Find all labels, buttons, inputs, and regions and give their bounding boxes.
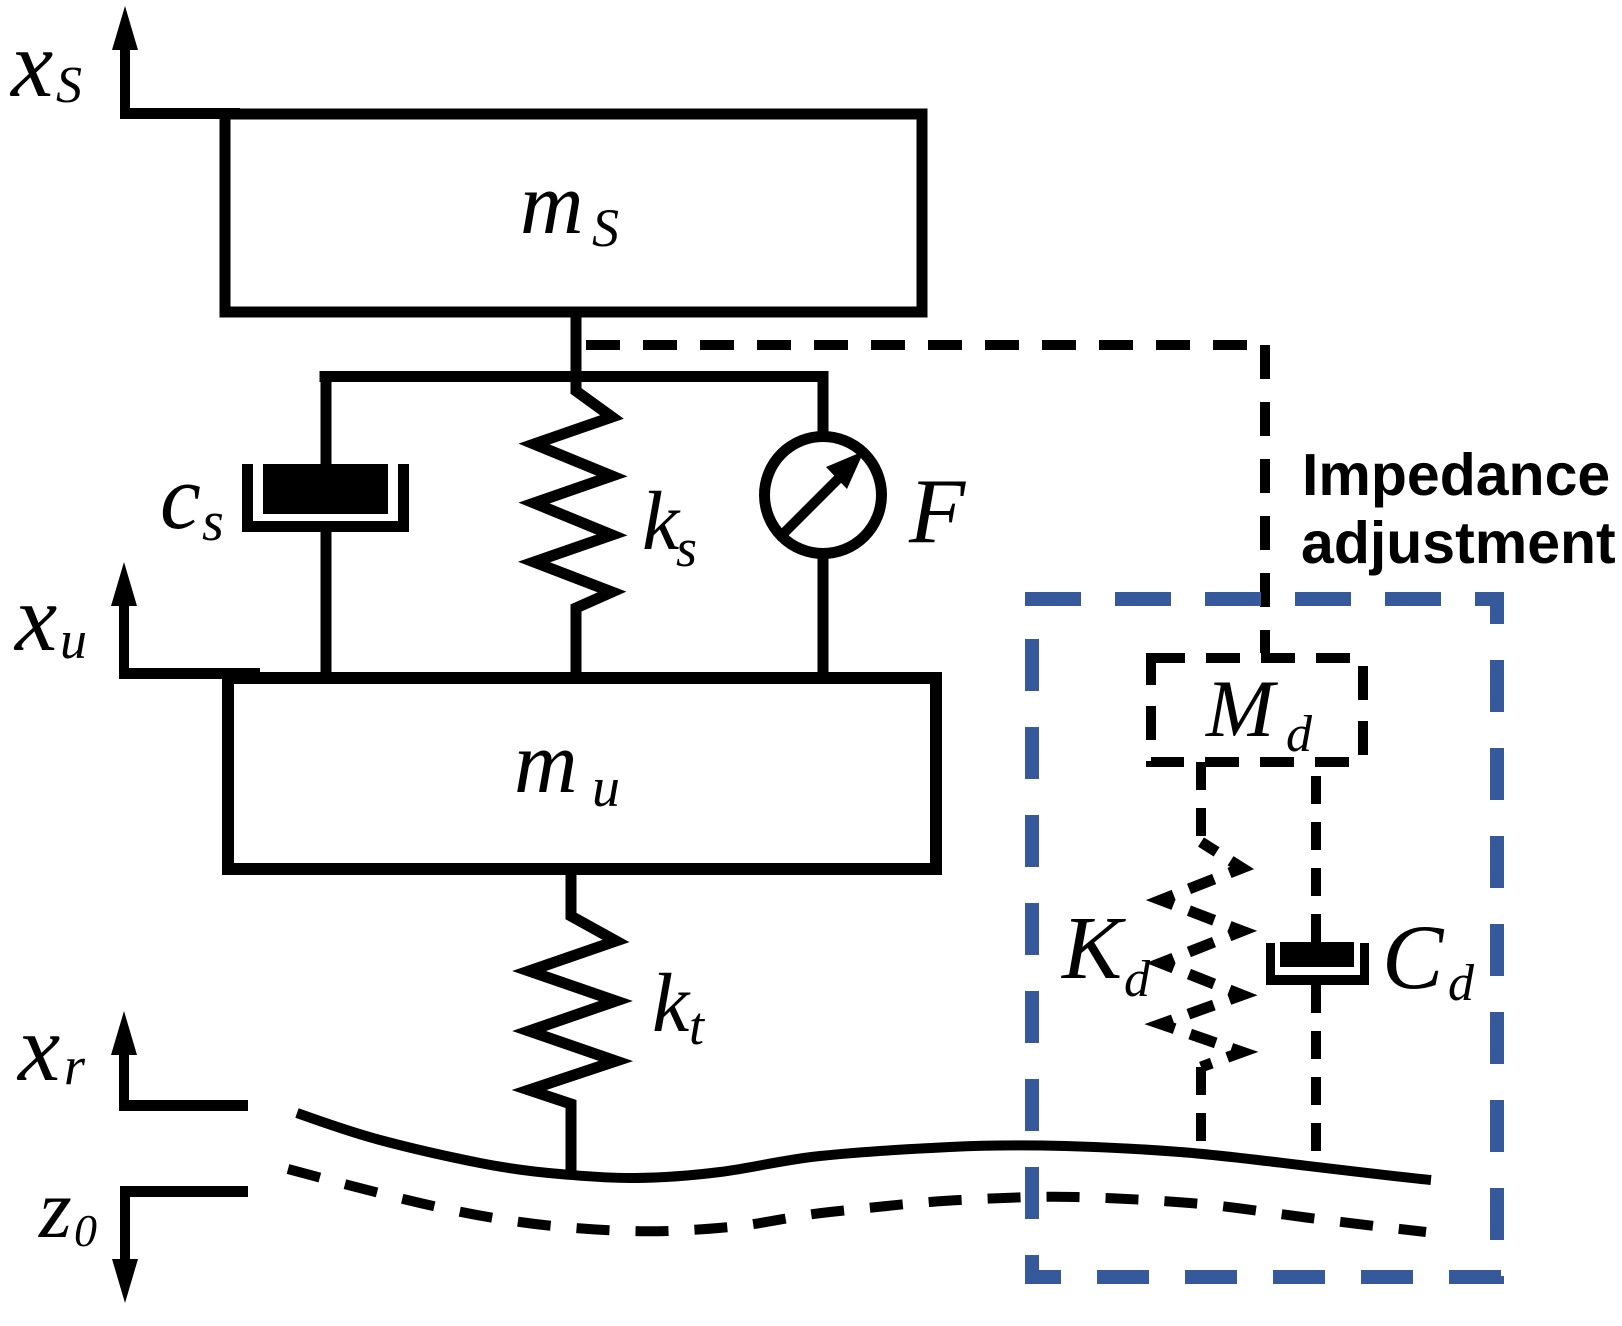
wire impedance adjustment dashed link (horizontal)	[586, 340, 1265, 350]
blue impedance adjustment box	[1025, 592, 1504, 1284]
svg-text:C: C	[1382, 906, 1445, 1008]
damper C_d dashed	[1266, 762, 1475, 1160]
svg-text:d: d	[1448, 955, 1475, 1012]
node z_0 axis arrow	[112, 1186, 248, 1303]
svg-text:x: x	[9, 11, 53, 117]
svg-text:s: s	[676, 518, 697, 578]
svg-text:z: z	[38, 1163, 72, 1256]
svg-text:S: S	[56, 57, 82, 114]
road profile solid	[297, 1113, 1431, 1180]
node x_r axis label	[16, 995, 86, 1101]
svg-text:s: s	[202, 491, 224, 553]
label Impedance adjustment	[1301, 442, 1616, 576]
svg-text:u: u	[60, 610, 87, 670]
svg-text:M: M	[1205, 663, 1279, 754]
node x_r axis arrow	[111, 1011, 248, 1111]
wire from m_S bottom to junction	[571, 312, 582, 390]
svg-text:S: S	[592, 198, 619, 258]
svg-text:k: k	[652, 957, 691, 1050]
svg-text:Impedance: Impedance	[1302, 442, 1610, 508]
svg-text:x: x	[16, 995, 60, 1101]
mass M_d dashed box	[1151, 658, 1363, 763]
actuator F	[765, 382, 967, 678]
node z_0 axis label	[38, 1163, 97, 1256]
spring k_s	[534, 382, 697, 678]
node x_S axis label	[9, 11, 82, 117]
svg-text:d: d	[1124, 951, 1151, 1008]
svg-text:K: K	[1060, 899, 1126, 998]
svg-text:m: m	[520, 156, 584, 253]
wire x_u axis horizontal	[119, 668, 260, 679]
mass m_S	[225, 114, 922, 312]
spring K_d dashed	[1060, 762, 1242, 1148]
mass m_u	[228, 678, 936, 869]
damper c_s label	[160, 446, 224, 553]
svg-text:0: 0	[74, 1205, 97, 1256]
svg-text:r: r	[64, 1036, 86, 1096]
svg-text:m: m	[514, 715, 578, 812]
node x_u axis arrow	[111, 562, 137, 679]
road profile dashed	[288, 1169, 1426, 1232]
node x_u axis label	[13, 565, 87, 671]
svg-text:F: F	[908, 460, 966, 562]
spring k_t	[529, 869, 706, 1177]
node x_S axis arrow	[112, 6, 138, 117]
damper c_s	[242, 376, 409, 678]
wire x_S axis horizontal	[120, 108, 240, 119]
svg-text:x: x	[13, 565, 57, 671]
wire impedance adjustment dashed link (vertical)	[1260, 345, 1270, 653]
svg-text:d: d	[1286, 706, 1313, 763]
svg-text:c: c	[160, 446, 201, 548]
wire suspension top connector	[320, 371, 829, 382]
svg-text:u: u	[592, 757, 620, 819]
svg-text:adjustment: adjustment	[1301, 510, 1616, 576]
svg-text:t: t	[689, 996, 706, 1056]
